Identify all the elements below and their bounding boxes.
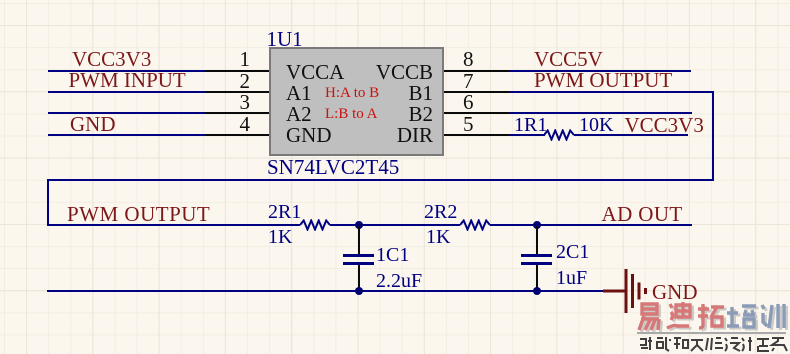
wire ground rail bottom <box>47 290 604 292</box>
watermark small text <box>638 336 790 352</box>
resistor 2R1 zigzag <box>300 219 330 231</box>
resistor 2R2 zigzag <box>460 219 490 231</box>
pin 1 stub of U1 <box>205 70 270 72</box>
wire row5 left of R1 <box>509 134 545 136</box>
value 1K of 2R2 <box>426 227 450 247</box>
wire net PWM OUTPUT bottom row left of R2R1 <box>47 224 300 226</box>
designator 2R2 <box>424 202 457 222</box>
pin 3 stub of U1 <box>205 112 270 114</box>
junction node 1C1 bottom <box>355 287 363 295</box>
pin 5 stub of U1 <box>444 134 509 136</box>
pin name B1 <box>373 83 433 104</box>
junction node R2R1/C1 top <box>355 221 363 229</box>
wire net VCC3V3 row1 left <box>48 70 205 72</box>
pin number 2 <box>200 71 250 92</box>
pin name VCCA <box>286 62 344 83</box>
pin number 8 <box>463 49 474 70</box>
wire row3 left (A2) <box>48 112 205 114</box>
junction node 2C1 bottom <box>533 287 541 295</box>
wire horizontal rail y180 <box>47 179 714 181</box>
value 1K of 2R1 <box>268 227 292 247</box>
capacitor 2C1 top lead <box>536 226 538 254</box>
pin name VCCB <box>373 62 433 83</box>
pin name GND <box>286 125 332 146</box>
net label PWM OUTPUT right <box>534 70 672 91</box>
value 2.2uF <box>376 271 422 291</box>
wire net AD OUT right of 2R2 <box>490 224 692 226</box>
wire net VCC5V row8 right <box>509 70 691 72</box>
pin 8 stub of U1 <box>444 70 509 72</box>
label L:B to A <box>325 107 378 122</box>
capacitor 1C1 top lead <box>358 226 360 254</box>
net label GND left <box>70 114 116 135</box>
net label VCC3V3 right <box>625 115 704 136</box>
pin number 4 <box>200 114 250 135</box>
pin 7 stub of U1 <box>444 91 509 93</box>
junction node 2R2/2C1 top <box>533 221 541 229</box>
watermark underline <box>637 332 786 334</box>
net label PWM OUTPUT bottom <box>67 204 210 225</box>
pin number 1 <box>200 49 250 70</box>
wire between 2R1 and 2R2 <box>330 224 460 226</box>
wire row5 right of R1 to VCC3V3 <box>574 134 688 136</box>
value 10K <box>579 115 613 135</box>
watermark logo big text <box>636 302 788 336</box>
wire net PWM OUTPUT row7 right <box>509 91 714 93</box>
part number SN74LVC2T45 <box>267 157 399 178</box>
pin number 3 <box>200 92 250 113</box>
value 1uF <box>556 268 587 288</box>
pin 2 stub of U1 <box>205 91 270 93</box>
pin name A2 <box>286 104 312 125</box>
net label GND right <box>652 282 698 303</box>
component U1 body <box>269 47 444 156</box>
pin 6 stub of U1 <box>444 112 509 114</box>
designator 1U1 <box>267 29 303 50</box>
wire row6 right (B2) <box>509 112 692 114</box>
net label AD OUT <box>602 204 683 225</box>
net label VCC5V <box>534 49 603 70</box>
wire vertical from pin7 down right side <box>712 91 714 181</box>
pin name DIR <box>373 125 433 146</box>
net label PWM INPUT left <box>69 70 186 91</box>
pin number 6 <box>463 92 474 113</box>
net label VCC3V3 left <box>72 49 151 70</box>
pin name B2 <box>373 104 433 125</box>
ground symbol GND <box>603 265 649 317</box>
pin number 7 <box>463 71 474 92</box>
pin 4 stub of U1 <box>205 134 270 136</box>
wire net GND row4 left <box>48 134 205 136</box>
capacitor 1C1 plates <box>343 254 374 257</box>
capacitor 2C1 plates <box>521 254 552 257</box>
label H:A to B <box>325 86 379 101</box>
wire net PWM INPUT row2 left <box>48 91 205 93</box>
capacitor 1C1 bottom lead <box>358 265 360 291</box>
wire vertical left down to PWM OUTPUT row <box>47 179 49 226</box>
resistor 1R1 zigzag <box>544 129 574 141</box>
designator 2R1 <box>268 202 301 222</box>
pin name A1 <box>286 83 312 104</box>
designator 1C1 <box>376 245 409 265</box>
designator 2C1 <box>556 242 589 262</box>
capacitor 2C1 bottom lead <box>536 265 538 291</box>
pin number 5 <box>463 114 474 135</box>
designator 1R1 <box>514 115 547 135</box>
